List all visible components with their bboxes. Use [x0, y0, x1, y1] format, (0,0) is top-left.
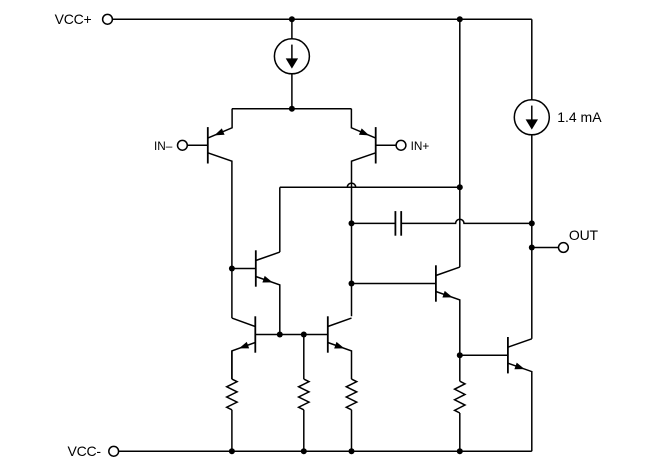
- transistor Q5b base bar: [327, 316, 329, 352]
- transistor Q1 emitter: [208, 109, 232, 138]
- resistor R1: [227, 379, 237, 410]
- wire mirror base rail: [255, 334, 327, 336]
- transistor Q4 collector: [436, 267, 460, 275]
- wire Q3 collector net (hops over Q2 collector): [280, 183, 460, 187]
- wire R1 to rail: [231, 410, 233, 452]
- transistor Q5b collector: [328, 318, 352, 326]
- wire IN- base lead: [187, 144, 208, 146]
- wire R4 to rail: [459, 413, 461, 451]
- transistor Q3 emitter arrow (NPN): [262, 276, 272, 283]
- wire Q5 emitter to R1: [231, 351, 233, 379]
- junction rail / R3: [349, 448, 355, 454]
- transistor Q5b emitter: [328, 343, 352, 380]
- terminal VCC+: [103, 14, 113, 24]
- transistor Q4 emitter arrow (NPN): [442, 291, 452, 298]
- transistor Q4 base bar: [435, 265, 437, 301]
- wire VCC+ to Q4 collector (vertical): [459, 19, 461, 267]
- wire I2 to OUT node: [531, 135, 533, 224]
- label OUT: [569, 227, 599, 243]
- label 1.4 mA: [557, 109, 602, 125]
- transistor Q6 collector: [508, 339, 532, 347]
- wire Q1 collector to Q5 collector: [231, 269, 233, 319]
- wire top rail VCC+: [112, 18, 531, 20]
- svg-text:OUT: OUT: [569, 227, 599, 243]
- terminal VCC-: [109, 446, 119, 456]
- transistor Q3 base bar: [255, 250, 257, 286]
- svg-text:VCC-: VCC-: [67, 443, 101, 459]
- junction Q3 emitter / mirror rail: [277, 332, 283, 338]
- terminal OUT: [559, 243, 569, 253]
- junction Q4 emitter / Q6 base: [457, 352, 463, 358]
- label VCC-: [67, 443, 101, 459]
- transistor Q5 collector: [232, 318, 255, 326]
- junction emitter rail / I1: [289, 106, 295, 112]
- transistor Q3 collector: [256, 252, 280, 260]
- current source I2: [514, 100, 549, 135]
- wire mirror rail to R2: [303, 335, 305, 380]
- wire Q4 base lead: [352, 283, 436, 285]
- junction OUT tap: [529, 245, 535, 251]
- wire Q4 emitter to R4: [459, 355, 461, 381]
- label IN-: [154, 139, 173, 153]
- terminal IN+: [396, 140, 406, 150]
- wire input-pair emitter rail: [232, 108, 352, 110]
- label IN+: [411, 139, 430, 153]
- svg-text:IN–: IN–: [154, 139, 173, 153]
- junction C1 / OUT column: [529, 220, 535, 226]
- transistor Q5 emitter: [232, 343, 255, 380]
- transistor Q3 emitter: [256, 277, 280, 335]
- transistor Q2 emitter: [351, 109, 375, 138]
- wire bottom rail VCC-: [119, 450, 532, 452]
- current source I1: [274, 39, 309, 74]
- wire R3 to rail: [351, 410, 353, 452]
- junction Q1 collector / Q3 base: [229, 266, 235, 272]
- junction rail / R4: [457, 448, 463, 454]
- wire OUT lead: [532, 247, 559, 249]
- svg-text:1.4 mA: 1.4 mA: [557, 109, 602, 125]
- junction rail / R2: [301, 448, 307, 454]
- transistor Q2 base bar: [375, 127, 377, 163]
- wire Q6 base lead: [460, 354, 508, 356]
- wire I2 top: [531, 19, 533, 100]
- wire OUT tap to Q6 collector: [531, 248, 533, 339]
- wire OUT column cap-to-tap: [531, 223, 533, 247]
- svg-text:IN+: IN+: [411, 139, 430, 153]
- resistor R3: [346, 379, 356, 410]
- transistor Q6 base bar: [507, 337, 509, 373]
- capacitor C1: [395, 211, 401, 236]
- label VCC+: [55, 11, 92, 27]
- wire I1 bottom: [291, 74, 293, 109]
- wire C1 right lead (hops over Q4 collector): [401, 219, 532, 223]
- wire R2 to rail: [303, 410, 305, 452]
- transistor Q5 base bar: [254, 316, 256, 352]
- transistor Q5b emitter arrow (NPN): [334, 342, 344, 349]
- svg-text:VCC+: VCC+: [55, 11, 92, 27]
- terminal IN-: [178, 140, 188, 150]
- transistor Q1 emitter arrow (PNP): [214, 128, 224, 135]
- transistor Q5 emitter arrow (NPN): [239, 342, 249, 349]
- transistor Q6 emitter: [508, 363, 532, 451]
- junction Q2 collector / C1: [349, 220, 355, 226]
- wire Q3 collector riser: [279, 187, 281, 252]
- wire C1 left lead: [352, 222, 396, 224]
- junction mirror rail / R2: [301, 332, 307, 338]
- junction top rail / current source I1: [289, 16, 295, 22]
- transistor Q6 emitter arrow (NPN): [514, 363, 524, 370]
- transistor Q2 emitter arrow (PNP): [359, 128, 369, 135]
- transistor Q1 base bar: [207, 127, 209, 163]
- junction top rail / vertical to second stage: [457, 16, 463, 22]
- transistor Q4 emitter: [436, 292, 460, 356]
- junction Q2 collector / Q4 base: [349, 281, 355, 287]
- wire I1 top: [291, 19, 293, 39]
- wire Q3 base lead: [232, 268, 256, 270]
- resistor R4: [455, 381, 465, 413]
- transistor Q1 collector: [208, 153, 232, 268]
- junction Q3-collector net: [457, 184, 463, 190]
- junction rail / R1: [229, 448, 235, 454]
- transistor Q2 collector: [352, 153, 376, 316]
- wire IN+ base lead: [376, 144, 396, 146]
- resistor R2: [299, 379, 309, 410]
